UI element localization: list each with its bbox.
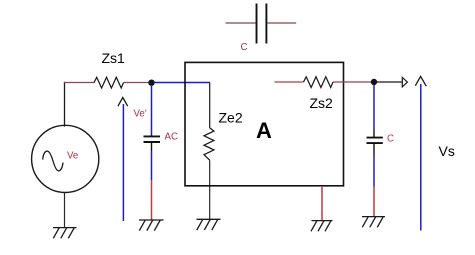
wire node Vs to output terminal bbox=[376, 81, 402, 83]
wire node Ve' to capacitor AC bbox=[151, 85, 153, 136]
wire source Ve to ground bbox=[64, 193, 66, 228]
ground (below source Ve) bbox=[53, 228, 77, 239]
ground (below Ze2) bbox=[197, 219, 221, 230]
wire amplifier common to ground bbox=[321, 186, 323, 221]
wire amplifier output to Zs2 bbox=[275, 81, 304, 83]
wire node Ve' to amplifier input bbox=[154, 82, 210, 84]
source Ve bbox=[32, 125, 99, 192]
svg-text:C: C bbox=[241, 42, 248, 53]
svg-text:Zs2: Zs2 bbox=[310, 95, 334, 111]
wire Zs2 to node Vs bbox=[333, 81, 374, 83]
wire Ze2 to ground bbox=[209, 160, 211, 219]
ground (right, below output capacitor) bbox=[362, 217, 385, 228]
wire Zs1 to node Ve' bbox=[124, 82, 152, 84]
wire source Ve to resistor Zs1 bbox=[65, 83, 95, 127]
wire node Vs to capacitor C bbox=[373, 85, 375, 138]
node Ve' junction bbox=[148, 80, 154, 86]
capacitor C (output) bbox=[367, 138, 383, 155]
svg-text:Ve': Ve' bbox=[134, 108, 147, 119]
resistor Zs1 bbox=[94, 77, 124, 88]
resistor Ze2 bbox=[204, 128, 214, 160]
svg-text:Ve: Ve bbox=[67, 151, 78, 162]
svg-text:Zs1: Zs1 bbox=[102, 50, 126, 66]
svg-text:Ze2: Ze2 bbox=[219, 110, 243, 126]
resistor Zs2 bbox=[304, 77, 334, 88]
ground (below amplifier block) bbox=[311, 221, 333, 232]
wire capacitor C to ground bbox=[373, 155, 375, 217]
arrow Vs (annotation) bbox=[415, 76, 426, 230]
output terminal (open arrow) bbox=[402, 77, 407, 87]
node Vs junction bbox=[371, 79, 377, 85]
amplifier block A bbox=[185, 62, 344, 185]
svg-text:C: C bbox=[387, 134, 394, 145]
svg-text:A: A bbox=[256, 118, 272, 143]
wire amplifier input down to Ze2 bbox=[209, 83, 211, 128]
svg-text:AC: AC bbox=[165, 132, 178, 143]
svg-text:Vs: Vs bbox=[439, 143, 455, 159]
capacitor AC bbox=[144, 136, 161, 151]
wire capacitor AC to ground bbox=[151, 151, 153, 220]
ground (below capacitor AC) bbox=[139, 220, 164, 231]
arrow Ve' (annotation) bbox=[118, 98, 128, 222]
capacitor C (top, feedback) bbox=[226, 4, 297, 44]
